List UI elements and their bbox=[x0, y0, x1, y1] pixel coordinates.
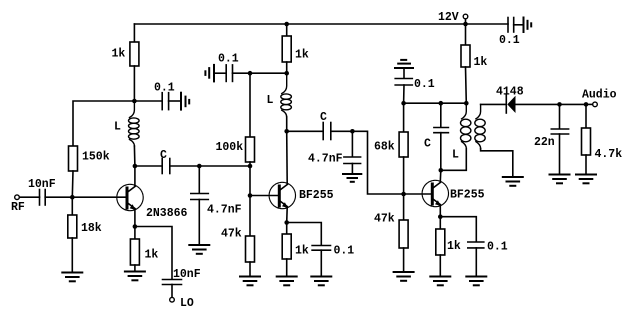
wire 4.7nF to ground bbox=[198, 200, 200, 245]
terminal 12V bbox=[463, 14, 468, 19]
svg-text:10nF: 10nF bbox=[28, 178, 56, 191]
12V column junction bbox=[463, 22, 468, 27]
wire R4 to ground bbox=[134, 265, 136, 271]
wire C3 to node Q bbox=[440, 133, 442, 171]
node L junction bbox=[350, 129, 355, 134]
ground (left-facing, stage2 gate bias) bbox=[205, 65, 214, 82]
node H junction (Q2 gate) bbox=[248, 193, 253, 198]
wire Q1 collector up bbox=[134, 166, 136, 186]
wire node P to Q3 base bbox=[404, 193, 431, 195]
wire node P down to 47k bbox=[403, 194, 405, 220]
ground (right-facing, supply) bbox=[524, 18, 532, 33]
svg-text:4.7k: 4.7k bbox=[595, 148, 623, 161]
wire Q1 emitter to 10nF LO bbox=[135, 227, 172, 280]
capacitor 0.1 (supply decoupling) bbox=[507, 18, 509, 33]
wire 18k to ground bbox=[71, 238, 73, 272]
svg-text:10nF: 10nF bbox=[173, 268, 201, 281]
wire 47k to ground bbox=[403, 248, 405, 271]
transistor Q1 2N3866 bbox=[117, 184, 188, 220]
wire 22n to ground bbox=[559, 134, 561, 174]
wire RF to C 10nF bbox=[20, 196, 40, 198]
ground (R8) bbox=[277, 277, 297, 286]
ground (R4) bbox=[125, 272, 145, 281]
terminal LO bbox=[170, 297, 175, 302]
node G2 junction bbox=[284, 71, 289, 76]
svg-text:L: L bbox=[267, 94, 274, 107]
wire L2 to node J bbox=[286, 117, 288, 131]
svg-text:0.1: 0.1 bbox=[414, 78, 435, 91]
wire node H to 47k bbox=[249, 196, 251, 237]
ground (secondary) bbox=[503, 177, 523, 186]
wire 0.1 to ground right bbox=[169, 100, 181, 102]
node O junction (xfmr primary top) bbox=[464, 101, 469, 106]
node C junction (Q1 collector) bbox=[133, 164, 138, 169]
inductor L4 (IF transformer secondary) bbox=[475, 104, 485, 148]
node D junction (Q1 emitter) bbox=[133, 224, 138, 229]
node G junction (100k top) bbox=[248, 71, 253, 76]
wire 150k to node B bbox=[71, 171, 74, 197]
svg-text:1k: 1k bbox=[447, 240, 461, 253]
diode D1 4148 bbox=[505, 95, 507, 113]
wire node T to Audio terminal bbox=[586, 103, 592, 105]
svg-text:C: C bbox=[160, 149, 167, 162]
svg-text:4.7nF: 4.7nF bbox=[308, 153, 343, 166]
ground (47k) bbox=[240, 277, 260, 286]
node J junction (Q2 drain) bbox=[284, 129, 289, 134]
ground (4.7nF stage3) bbox=[343, 174, 361, 182]
wire rail to R7 bbox=[286, 24, 288, 36]
svg-text:4.7nF: 4.7nF bbox=[207, 204, 242, 217]
svg-text:12V: 12V bbox=[438, 11, 459, 24]
wire R7 to node G2 bbox=[286, 62, 288, 73]
wire left rail drop to R1 bbox=[133, 24, 135, 42]
node M junction (68k top) bbox=[401, 101, 406, 106]
wire 12V node down to R12 bbox=[465, 24, 467, 45]
resistor R6 47k bbox=[246, 236, 255, 262]
wire node S to node T bbox=[560, 103, 587, 105]
ground (4.7nF) bbox=[189, 245, 209, 254]
svg-text:LO: LO bbox=[180, 297, 194, 310]
capacitor 4.7nF (stage3 gate) bbox=[351, 131, 353, 156]
ground (stage2 bypass) bbox=[311, 277, 331, 286]
node E junction bbox=[197, 164, 202, 169]
wire C1 to node E bbox=[170, 165, 200, 167]
node S junction (22n) bbox=[557, 102, 562, 107]
svg-text:150k: 150k bbox=[82, 151, 110, 164]
svg-text:0.1: 0.1 bbox=[218, 53, 239, 66]
wire Q3 collector up to node Q bbox=[439, 170, 442, 182]
ground (4.7k) bbox=[576, 175, 596, 184]
wire R11 to ground bbox=[439, 255, 441, 276]
resistor R3 18k bbox=[68, 215, 77, 238]
wire cap to ground bbox=[320, 250, 322, 275]
wire Q3 emitter to bypass cap bbox=[440, 217, 476, 242]
svg-text:1k: 1k bbox=[474, 56, 488, 69]
svg-text:4148: 4148 bbox=[496, 86, 524, 99]
node P junction (Q3 gate) bbox=[401, 192, 406, 197]
wire 10nF to node B bbox=[45, 196, 72, 198]
wire Q2 emitter down bbox=[286, 208, 289, 223]
wire Q3 emitter down bbox=[439, 206, 441, 217]
wire 68k to node P bbox=[403, 157, 405, 194]
capacitor 0.1 (stage2 bias bypass) bbox=[214, 72, 226, 74]
node B junction (base node) bbox=[70, 195, 75, 200]
transistor Q3 BF255 bbox=[422, 180, 485, 206]
node T junction (4.7k) bbox=[584, 102, 589, 107]
capacitor 4.7nF (stage2 gate) bbox=[198, 166, 200, 193]
svg-text:1k: 1k bbox=[295, 49, 309, 62]
wire 4.7k to ground bbox=[585, 155, 587, 174]
resistor R7 1k (stage2 drain) bbox=[282, 36, 291, 62]
capacitor C1 C (stage1-2 coupling) bbox=[135, 165, 162, 167]
svg-text:0.1: 0.1 bbox=[334, 245, 355, 258]
resistor R9 68k bbox=[399, 132, 408, 157]
terminal Audio output bbox=[593, 102, 598, 107]
resistor R2 150k bbox=[69, 146, 78, 171]
capacitor 10nF (input) bbox=[39, 190, 41, 206]
ground (stage3 bypass) bbox=[466, 277, 486, 286]
node R junction (Q3 emitter) bbox=[438, 214, 443, 219]
wire diode to node S bbox=[516, 103, 560, 105]
svg-text:18k: 18k bbox=[81, 222, 102, 235]
svg-text:C: C bbox=[320, 111, 327, 124]
capacitor 10nF (LO injection) bbox=[163, 279, 182, 281]
wire node B to Q1 base bbox=[72, 196, 126, 198]
wire rail right to decoupling cap bbox=[466, 23, 509, 25]
node Q junction (Q3 drain / tank bottom) bbox=[439, 168, 444, 173]
svg-text:C: C bbox=[424, 138, 431, 151]
node N junction (tank C top) bbox=[439, 101, 444, 106]
wire top supply rail bbox=[134, 23, 465, 25]
wire R1 bottom to node A bbox=[133, 66, 135, 101]
svg-text:2N3866: 2N3866 bbox=[146, 207, 188, 220]
svg-text:1k: 1k bbox=[145, 249, 159, 262]
wire node E to node F bbox=[199, 165, 250, 167]
wire node G down to 100k bbox=[249, 73, 251, 137]
ground (18k) bbox=[62, 273, 82, 282]
node I junction on supply rail (stage2) bbox=[284, 22, 289, 27]
capacitor 0.1 (stage3 bias bypass) bbox=[403, 68, 405, 78]
node F junction (100k bottom) bbox=[248, 164, 253, 169]
resistor R10 47k (stage3) bbox=[399, 220, 408, 248]
wire secondary top to diode bbox=[481, 103, 506, 105]
capacitor 0.1 (stage2 emitter bypass) bbox=[312, 245, 330, 247]
svg-text:0.1: 0.1 bbox=[499, 34, 520, 47]
svg-text:100k: 100k bbox=[216, 141, 244, 154]
wire node A left to 150k column bbox=[73, 101, 134, 146]
wire node H to Q2 base bbox=[250, 195, 278, 197]
transistor Q2 BF255 bbox=[269, 182, 334, 208]
wire cap to node M bbox=[403, 85, 405, 103]
capacitor C3 C (IF tank) bbox=[440, 103, 442, 127]
svg-text:RF: RF bbox=[11, 201, 25, 214]
svg-text:68k: 68k bbox=[374, 141, 395, 154]
wire node M right to node N bbox=[404, 102, 441, 104]
ground (22n) bbox=[550, 175, 570, 184]
resistor R12 1k (stage3 drain feed) bbox=[461, 45, 470, 67]
ground (right-facing, stage1 bypass) bbox=[181, 93, 189, 110]
svg-text:Audio: Audio bbox=[582, 89, 617, 102]
wire Q2 emitter to bypass cap bbox=[287, 223, 322, 246]
wire node L to Q3 gate line bbox=[352, 131, 403, 194]
ground (47k stage3) bbox=[394, 272, 414, 281]
wire L1 to node C bbox=[133, 146, 136, 166]
wire C2 to node L bbox=[331, 130, 353, 132]
svg-text:BF255: BF255 bbox=[299, 189, 334, 202]
resistor R8 1k (stage2 emitter) bbox=[286, 223, 288, 235]
resistor R1 1k (stage1 collector) bbox=[130, 42, 139, 66]
svg-text:L: L bbox=[452, 149, 459, 162]
node A junction bbox=[132, 99, 137, 104]
capacitor 22n (audio filter) bbox=[559, 104, 561, 128]
wire Q2 collector up bbox=[286, 131, 289, 184]
svg-text:1k: 1k bbox=[112, 48, 126, 61]
wire node M down to 68k bbox=[403, 103, 405, 132]
svg-text:22n: 22n bbox=[534, 136, 555, 149]
svg-text:0.1: 0.1 bbox=[487, 241, 508, 254]
wire 10nF to LO terminal bbox=[171, 285, 173, 297]
svg-text:BF255: BF255 bbox=[450, 189, 485, 202]
wire R12 to node O bbox=[465, 67, 468, 103]
terminal RF input bbox=[15, 195, 20, 200]
wire node B down to 18k bbox=[71, 197, 73, 215]
wire primary bottom to node Q bbox=[441, 149, 467, 171]
wire node F down to node H bbox=[249, 166, 251, 196]
capacitor 0.1 (stage3 emitter bypass) bbox=[468, 241, 484, 243]
wire secondary bottom to ground bbox=[481, 149, 513, 177]
wire 100k to node F bbox=[249, 162, 251, 166]
svg-text:1k: 1k bbox=[295, 245, 309, 258]
wire 4.7nF to ground bbox=[351, 164, 353, 174]
wire 0.1 to node G bbox=[233, 72, 287, 74]
node K junction (Q2 emitter) bbox=[284, 220, 289, 225]
svg-text:0.1: 0.1 bbox=[154, 82, 175, 95]
wire node N to node O bbox=[441, 102, 467, 104]
wire R8 to ground bbox=[286, 259, 288, 276]
resistor R5 100k bbox=[246, 137, 255, 162]
ground (inverted, above stage3 bias cap) bbox=[395, 60, 413, 68]
wire Q1 emitter down bbox=[134, 210, 136, 227]
wire 47k to ground bbox=[249, 262, 251, 276]
wire cap to ground bbox=[475, 248, 477, 276]
svg-text:47k: 47k bbox=[221, 228, 242, 241]
svg-text:47k: 47k bbox=[374, 213, 395, 226]
resistor R4 1k (stage1 emitter) bbox=[134, 227, 136, 240]
resistor R13 4.7k (audio load) bbox=[585, 104, 587, 128]
resistor R11 1k (stage3 emitter) bbox=[439, 217, 441, 229]
capacitor C2 C (stage2-3 coupling) bbox=[287, 130, 323, 132]
svg-text:L: L bbox=[114, 121, 121, 134]
wire cap to ground right bbox=[514, 24, 524, 26]
capacitor 0.1 (stage1 collector bypass) bbox=[134, 100, 162, 102]
ground (R11) bbox=[430, 277, 450, 286]
